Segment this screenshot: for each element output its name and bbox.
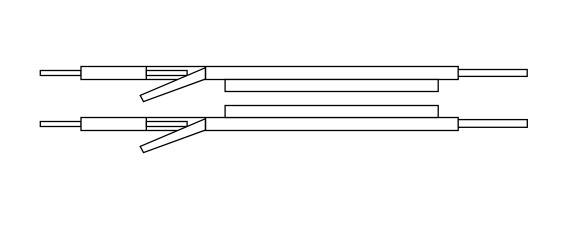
peeled shield strip (lower assembly) <box>140 119 205 153</box>
peeled shield strip (upper assembly) <box>140 68 205 102</box>
wire W4 right lead (lower assembly) <box>458 120 527 128</box>
junction divider A (lower assembly) <box>145 118 147 131</box>
junction divider B (lower assembly) <box>205 118 207 131</box>
wire W3 left lead (lower assembly) <box>40 122 81 127</box>
conductor rectangle (lower assembly) <box>146 122 187 127</box>
conductor rectangle (upper assembly) <box>146 71 187 76</box>
splice body / sleeve outline (lower assembly) <box>81 118 458 131</box>
wire W1 left lead (upper assembly) <box>40 71 81 76</box>
junction divider B (upper assembly) <box>205 67 207 80</box>
heat-shrink tube upper rectangle (lower assembly) <box>225 106 438 118</box>
junction divider A (upper assembly) <box>145 67 147 80</box>
wire W2 right lead (upper assembly) <box>458 70 527 77</box>
heat-shrink tube lower rectangle (upper assembly) <box>225 80 438 92</box>
splice body / sleeve outline (upper assembly) <box>81 67 458 80</box>
